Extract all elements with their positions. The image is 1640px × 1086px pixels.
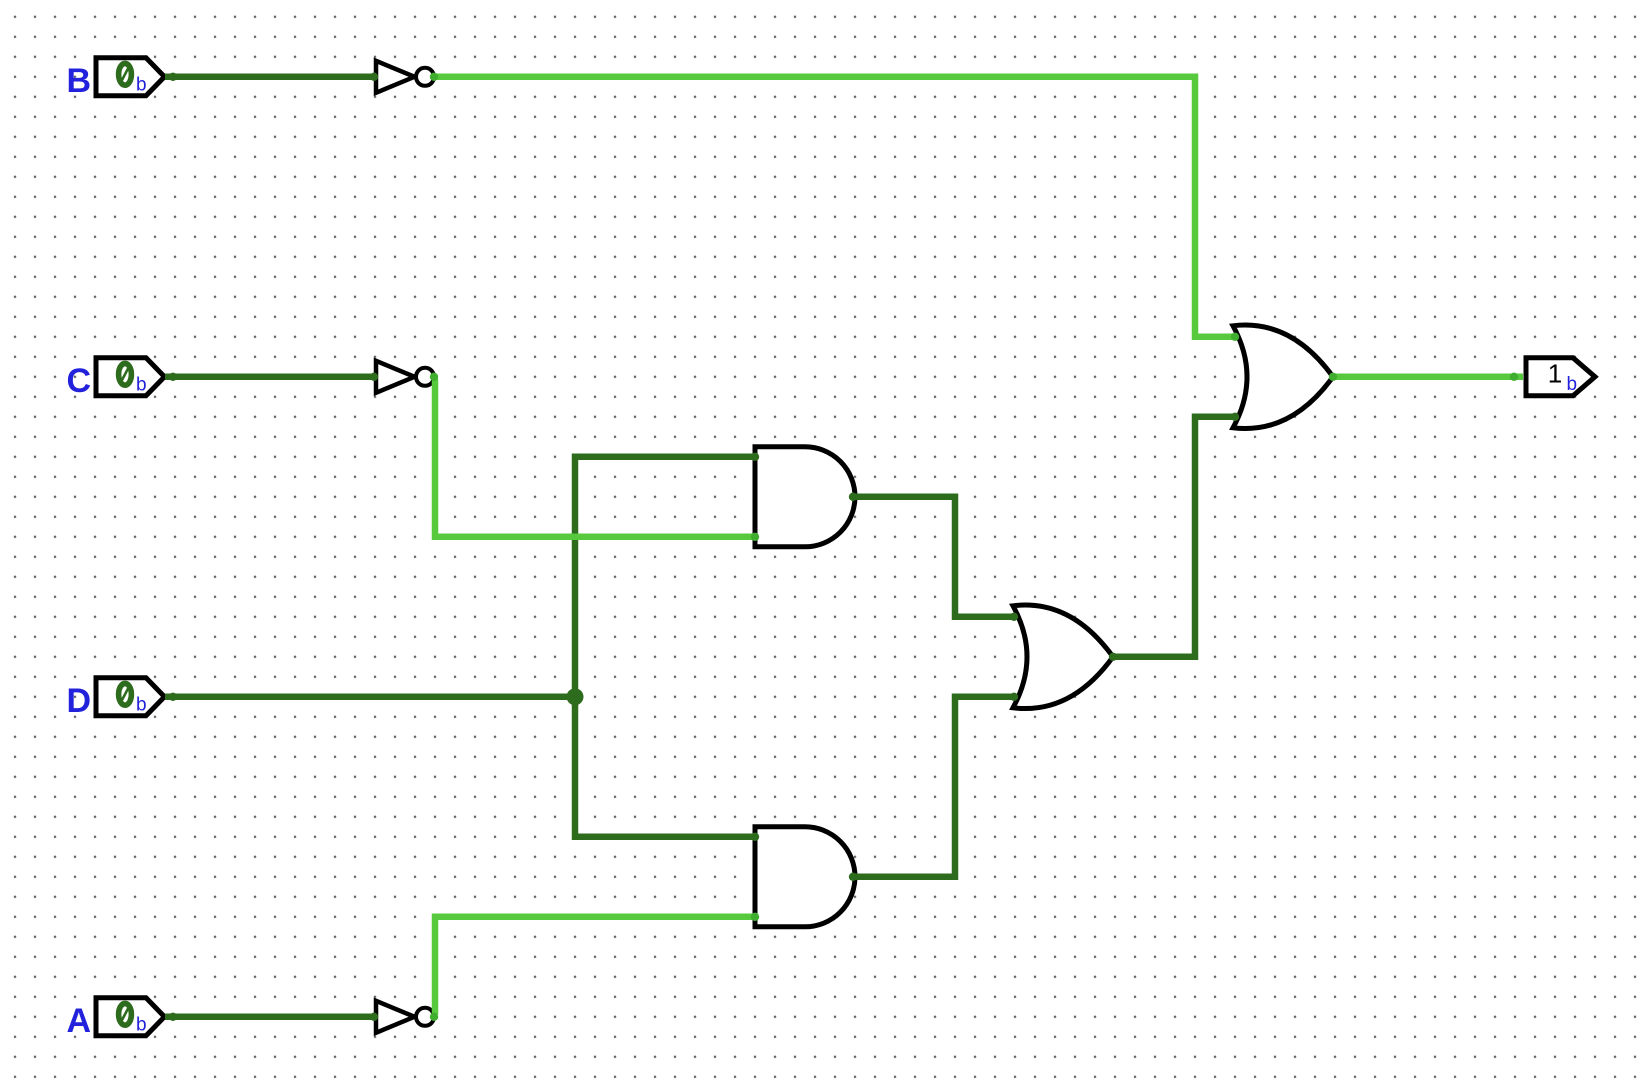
OR gate U6 — [1013, 605, 1113, 709]
AND gate U4 — [755, 447, 855, 547]
svg-text:b: b — [1567, 374, 1578, 395]
node C pin out — [169, 373, 177, 381]
node NOT A out — [430, 1013, 438, 1021]
input pin D — [66, 678, 164, 720]
node output pin in — [1510, 373, 1518, 381]
wire OR U7 out to output pin — [1333, 374, 1523, 381]
input pin B — [66, 58, 164, 100]
junction D — [567, 688, 584, 705]
svg-text:b: b — [136, 74, 147, 95]
wire A to NOT — [165, 1014, 375, 1021]
input pin A — [66, 998, 164, 1040]
node AND U4 in2 — [751, 533, 759, 541]
output pin Y — [1526, 358, 1595, 396]
svg-text:B: B — [66, 62, 91, 100]
wire B to NOT — [165, 74, 375, 81]
node NOT C in — [370, 373, 378, 381]
NOT gate U3 (A) — [376, 1001, 434, 1033]
node AND U5 in1 — [751, 833, 759, 841]
node OR U7 in2 — [1231, 413, 1239, 421]
node AND U5 in2 — [751, 913, 759, 921]
svg-text:D: D — [66, 682, 91, 720]
node OR U6 out — [1109, 653, 1117, 661]
AND gate U5 — [755, 827, 855, 927]
node OR U6 in2 — [1010, 693, 1018, 701]
wire C to NOT — [165, 374, 375, 381]
OR gate U7 — [1233, 325, 1333, 429]
node D pin out — [169, 693, 177, 701]
node NOT B out — [430, 73, 438, 81]
input pin C — [66, 358, 164, 400]
node NOT B in — [370, 73, 378, 81]
NOT gate U1 (B) — [376, 61, 434, 93]
node AND U5 out — [849, 873, 857, 881]
node AND U4 in1 — [751, 453, 759, 461]
svg-text:A: A — [66, 1002, 91, 1040]
wire junction to AND U5 top — [575, 697, 755, 837]
wire OR U6 out to OR U7 — [1113, 417, 1235, 657]
wire D to junction — [165, 694, 575, 701]
wire AND U4 out to OR U6 — [853, 497, 1015, 617]
wire AND U5 out to OR U6 — [853, 697, 1015, 877]
wire NOT A out to AND U5 — [435, 917, 755, 1015]
node A pin out — [169, 1013, 177, 1021]
svg-text:1: 1 — [1548, 358, 1562, 388]
wire NOT B out to OR U7 — [431, 77, 1235, 337]
node OR U7 in1 — [1231, 333, 1239, 341]
node NOT A in — [370, 1013, 378, 1021]
node AND U4 out — [849, 493, 857, 501]
svg-text:C: C — [66, 362, 91, 400]
svg-text:b: b — [136, 1014, 147, 1035]
wire junction to AND U4 top — [575, 457, 755, 697]
wire NOT C out to AND U4 — [435, 379, 755, 537]
node OR U7 out — [1329, 373, 1337, 381]
node NOT C out — [430, 373, 438, 381]
node OR U6 in1 — [1010, 613, 1018, 621]
svg-text:b: b — [136, 374, 147, 395]
node B pin out — [169, 73, 177, 81]
NOT gate U2 (C) — [376, 361, 434, 393]
svg-text:b: b — [136, 694, 147, 715]
